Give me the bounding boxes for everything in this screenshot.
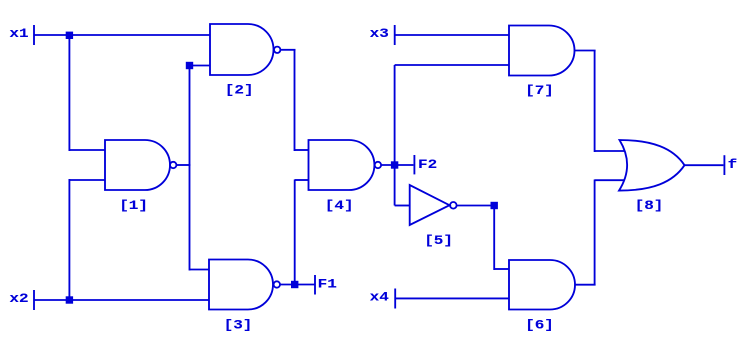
svg-text:[5]: [5] <box>424 234 453 248</box>
svg-text:f: f <box>728 158 738 172</box>
svg-text:[1]: [1] <box>119 199 148 213</box>
svg-text:x4: x4 <box>370 291 389 305</box>
svg-text:x3: x3 <box>370 27 389 41</box>
svg-text:[3]: [3] <box>224 318 253 332</box>
svg-text:[8]: [8] <box>635 199 664 213</box>
svg-text:[7]: [7] <box>525 84 554 98</box>
svg-text:[2]: [2] <box>225 84 254 98</box>
svg-text:x2: x2 <box>9 292 28 306</box>
svg-text:x1: x1 <box>9 27 28 41</box>
svg-text:[4]: [4] <box>325 199 354 213</box>
svg-text:F2: F2 <box>418 158 437 172</box>
svg-text:[6]: [6] <box>525 319 554 333</box>
svg-text:F1: F1 <box>318 278 337 292</box>
